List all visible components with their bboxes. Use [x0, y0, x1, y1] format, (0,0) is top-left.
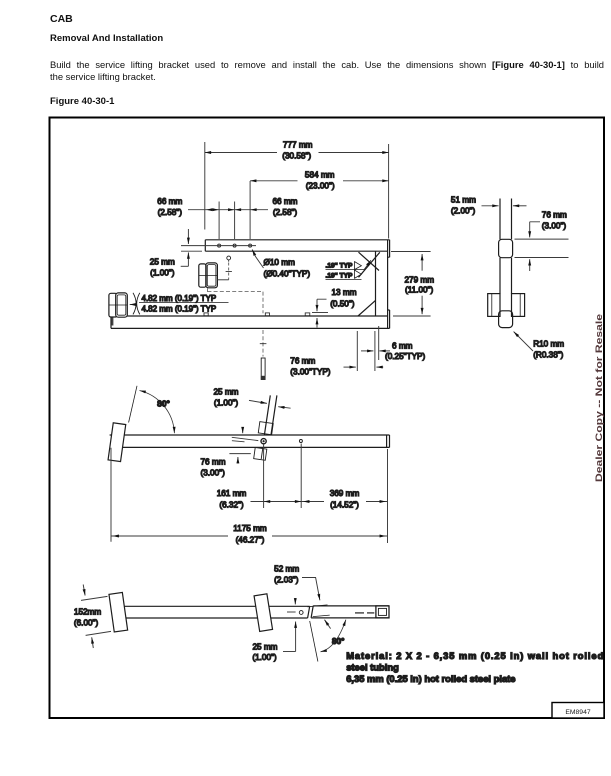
pivot bolt [261, 439, 266, 444]
right end cap [387, 435, 390, 447]
angled bar lower edge [261, 447, 263, 459]
hidden centerline to bolt hole [207, 288, 263, 313]
plate axis construction line [129, 386, 137, 423]
svg-text:(2.58"): (2.58") [273, 208, 298, 217]
svg-text:4.82 mm (0.19") TYP: 4.82 mm (0.19") TYP [142, 305, 217, 314]
svg-text:(3.00"TYP): (3.00"TYP) [290, 368, 330, 377]
figure title [50, 96, 114, 107]
bar right section [311, 606, 389, 618]
svg-text:80°: 80° [332, 636, 345, 646]
svg-text:369 mm: 369 mm [330, 489, 360, 498]
top tube of bracket frame [205, 240, 389, 251]
svg-text:(0.50"): (0.50") [330, 299, 355, 308]
dim 76 mm TYP [357, 326, 378, 371]
dim 369 mm [302, 501, 388, 503]
side detail nut [512, 294, 525, 317]
dim 13 mm [317, 299, 327, 304]
svg-text:(1.00"): (1.00") [252, 653, 277, 662]
clamp bolt assembly upper [199, 264, 206, 287]
svg-text:(11.00"): (11.00") [405, 286, 434, 295]
svg-text:(14.52"): (14.52") [330, 501, 359, 510]
hidden dash inside tube [355, 612, 374, 614]
svg-text:25 mm: 25 mm [252, 642, 277, 651]
bolt shank stub in bottom tube left end [111, 318, 113, 326]
hoist pin symbol [227, 256, 231, 260]
svg-text:(3.00"): (3.00") [201, 469, 226, 478]
svg-text:(1.00"): (1.00") [150, 269, 175, 278]
bottom end plate [388, 310, 390, 328]
dim 25 mm angled bar [249, 400, 267, 403]
upper joint plate [258, 422, 273, 435]
left end plate 152mm [109, 592, 128, 632]
svg-text:(Ø0.40"TYP): (Ø0.40"TYP) [264, 270, 311, 279]
clamp bolt assembly lower [109, 293, 117, 317]
dim 161 mm [251, 501, 302, 503]
dim 279 mm [391, 252, 431, 317]
bolt hanging below bottom tube [261, 358, 265, 380]
svg-text:(6.00"): (6.00") [74, 619, 99, 628]
dim 777 mm [205, 152, 389, 154]
miter joint line left [308, 606, 310, 618]
bar left section [120, 606, 310, 618]
svg-text:76 mm: 76 mm [201, 457, 226, 466]
svg-text:.19" TYP: .19" TYP [326, 273, 354, 280]
extension lines below [111, 444, 388, 544]
svg-text:66 mm: 66 mm [272, 197, 297, 206]
dim 584 mm [250, 180, 389, 182]
svg-text:25 mm: 25 mm [213, 387, 238, 396]
hole centerline [181, 245, 256, 247]
hole 2 [233, 244, 236, 247]
svg-text:(0.25"TYP): (0.25"TYP) [385, 352, 425, 361]
figure frame [50, 118, 605, 719]
lower joint plate [254, 448, 267, 461]
svg-text:(30.58"): (30.58") [282, 152, 311, 161]
dim 76 mm middle [242, 428, 244, 434]
side detail plate [500, 199, 512, 294]
side detail lower rounded end [499, 311, 513, 328]
bolt centerline below bottom tube [262, 330, 264, 357]
80 degree arc [140, 391, 175, 434]
side detail bolt head [488, 294, 500, 317]
dim 1175 mm [111, 535, 388, 537]
bottom tube of bracket frame [111, 316, 390, 328]
svg-text:(2.58"): (2.58") [158, 208, 183, 217]
left cross plate [108, 423, 126, 462]
bottom corner gusset [358, 300, 376, 316]
heading CAB [50, 13, 73, 25]
svg-text:76 mm: 76 mm [290, 357, 315, 366]
svg-text:steel tubing: steel tubing [346, 662, 399, 673]
svg-text:777 mm: 777 mm [283, 140, 313, 149]
construction line for 80 deg [310, 621, 318, 662]
dim 76 mm side [530, 222, 540, 238]
svg-text:584 mm: 584 mm [305, 171, 335, 180]
svg-text:Ø10 mm: Ø10 mm [264, 258, 296, 267]
svg-text:51 mm: 51 mm [451, 196, 476, 205]
heading Removal And Installation [50, 33, 163, 44]
svg-text:(R0.38"): (R0.38") [533, 351, 563, 360]
svg-text:(6.32"): (6.32") [219, 501, 244, 510]
top end plate [388, 240, 390, 257]
svg-text:(1.00"): (1.00") [214, 399, 239, 408]
svg-text:66 mm: 66 mm [157, 197, 182, 206]
svg-text:Material: 2 X 2 - 6,35 mm (0.2: Material: 2 X 2 - 6,35 mm (0.25 in) wall… [346, 650, 603, 661]
dim 25 mm top [181, 250, 202, 252]
svg-text:(46.27"): (46.27") [236, 536, 265, 545]
dim 51 mm [482, 205, 499, 207]
hole in bar [299, 611, 303, 615]
sketch overshoot lines [308, 605, 330, 617]
svg-text:6,35 mm (0.25 in) hot rolled s: 6,35 mm (0.25 in) hot rolled steel plate [346, 673, 515, 684]
extension lines top [205, 142, 389, 239]
main long tube (side view) [110, 435, 390, 447]
svg-text:1175 mm: 1175 mm [233, 524, 267, 533]
hole 3 [249, 244, 252, 247]
EM8947 label box [552, 703, 604, 719]
svg-text:161 mm: 161 mm [217, 489, 247, 498]
svg-text:52 mm: 52 mm [274, 565, 299, 574]
label R10 mm [514, 332, 533, 351]
svg-text:R10 mm: R10 mm [533, 340, 564, 349]
svg-text:(2.00"): (2.00") [451, 207, 476, 216]
middle cross plate [254, 594, 272, 632]
66 mm dimension line with arrows [188, 209, 268, 211]
svg-text:4.82 mm (0.19") TYP: 4.82 mm (0.19") TYP [142, 294, 217, 303]
dim 52 mm leader [302, 578, 320, 601]
svg-text:152mm: 152mm [74, 607, 101, 616]
svg-text:76 mm: 76 mm [542, 211, 567, 220]
body paragraph [50, 58, 604, 71]
label Ø10 mm [252, 250, 263, 269]
right vertical tube member [376, 240, 388, 329]
svg-text:.19" TYP: .19" TYP [326, 263, 354, 270]
angled flat bar above tube [264, 395, 277, 435]
svg-text:(23.00"): (23.00") [306, 182, 335, 191]
svg-text:EM8947: EM8947 [565, 709, 591, 716]
weld callout 4.82 mm [133, 293, 140, 315]
end square tube cap [376, 606, 389, 618]
svg-text:80°: 80° [157, 399, 170, 409]
hole right [299, 440, 302, 443]
side detail upper tube section [499, 239, 513, 257]
svg-text:6 mm: 6 mm [392, 342, 413, 351]
svg-text:279 mm: 279 mm [405, 275, 435, 284]
svg-text:(2.03"): (2.03") [274, 575, 299, 584]
svg-text:(3.00"): (3.00") [542, 222, 567, 231]
hole 1 [218, 244, 221, 247]
dim 152 mm [81, 596, 111, 635]
corner X gusset [359, 252, 380, 277]
80 degree arc bottom [321, 620, 346, 652]
svg-text:25 mm: 25 mm [150, 258, 175, 267]
svg-text:Dealer Copy -- Not for Resale: Dealer Copy -- Not for Resale [594, 314, 604, 482]
svg-text:13 mm: 13 mm [332, 288, 357, 297]
bolt head hidden marks on bottom tube [204, 313, 208, 316]
dim 25 mm bottom [287, 611, 296, 613]
dim 6 mm TYP [361, 350, 373, 352]
